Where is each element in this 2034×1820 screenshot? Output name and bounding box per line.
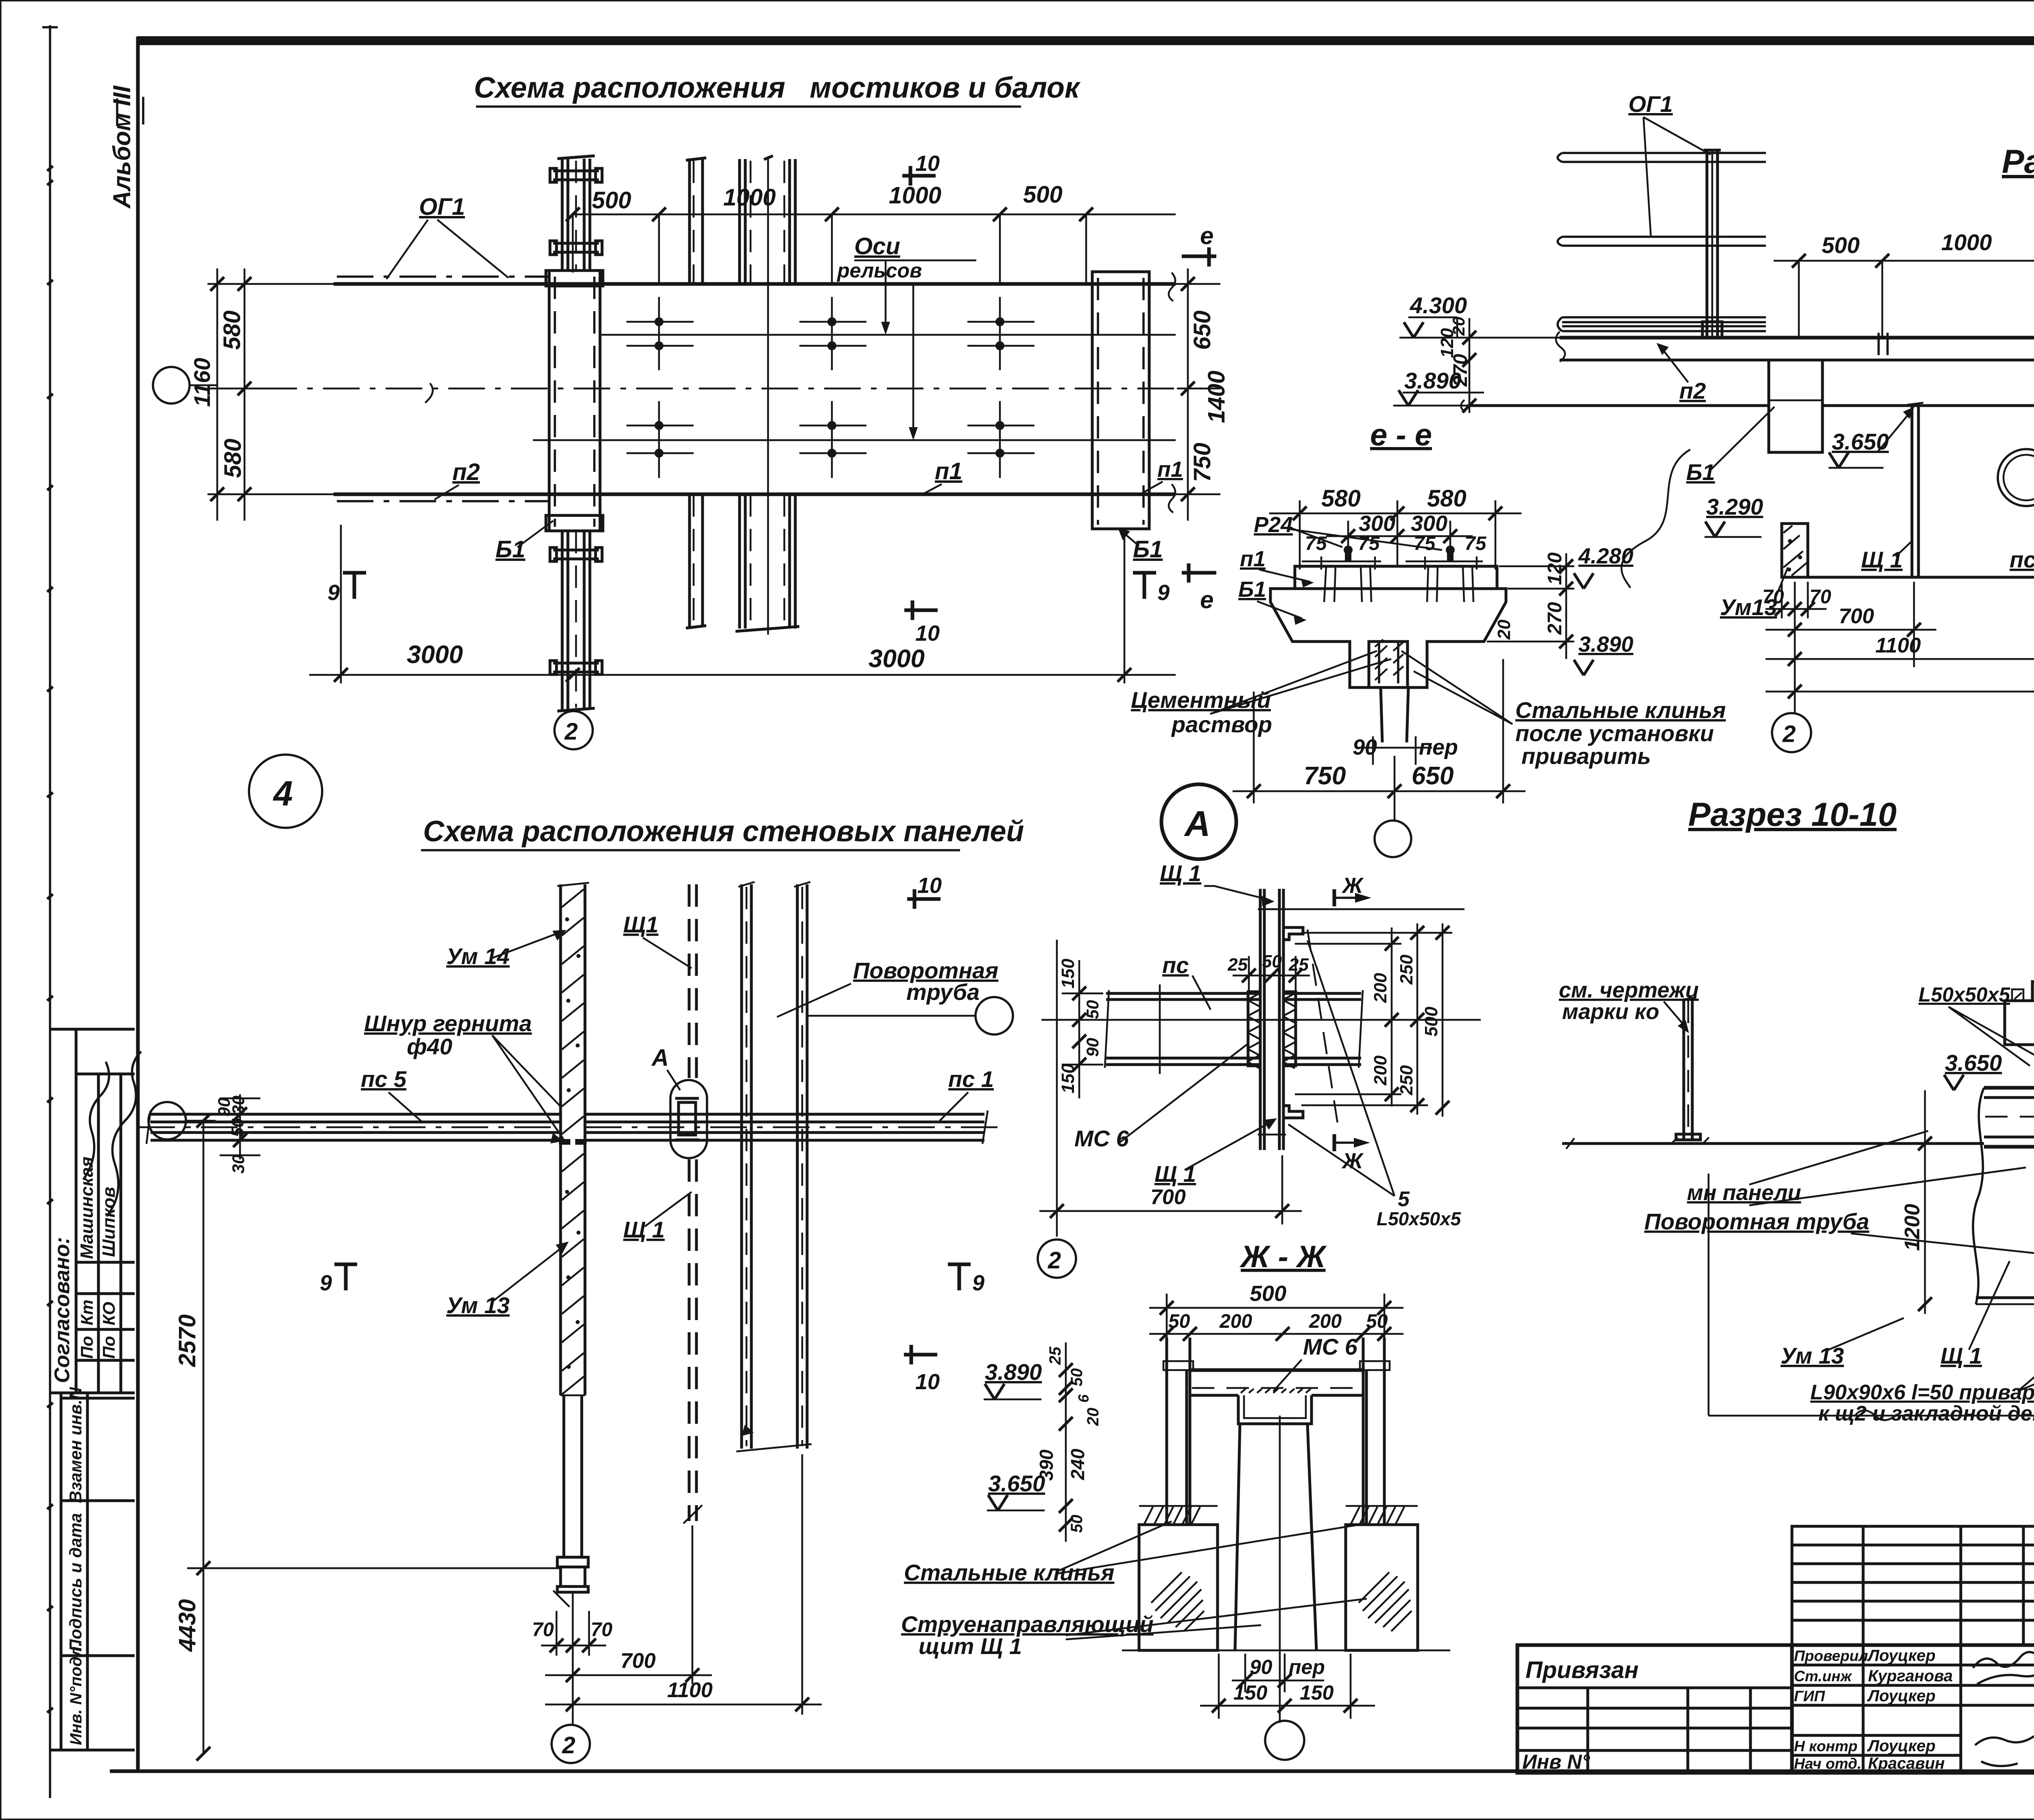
svg-text:6: 6: [1075, 1394, 1092, 1403]
dim 750/650: [1253, 692, 1255, 803]
svg-text:Взамен инв.N: Взамен инв.N: [66, 1386, 85, 1503]
svg-text:500: 500: [1250, 1281, 1286, 1306]
svg-text:70: 70: [1762, 586, 1784, 608]
wall panel Sch1: [1911, 407, 1914, 577]
svg-text:150: 150: [1058, 1063, 1078, 1093]
horizontal beam пс: [1106, 992, 1260, 995]
svg-text:1400: 1400: [1203, 371, 1230, 423]
svg-text:МС 6: МС 6: [1303, 1334, 1358, 1360]
svg-text:30: 30: [229, 1154, 248, 1174]
svg-text:2570: 2570: [174, 1314, 201, 1367]
svg-text:650: 650: [1412, 762, 1453, 790]
svg-text:50: 50: [1068, 1368, 1086, 1387]
deck beam п2: [1560, 336, 2034, 340]
svg-text:75: 75: [1414, 533, 1436, 554]
left dims 150/50/90/150: [1078, 960, 1080, 1098]
top beam: [1190, 1368, 1363, 1372]
svg-text:Разрез 10-10: Разрез 10-10: [1688, 796, 1897, 833]
svg-text:390: 390: [1036, 1449, 1057, 1481]
svg-text:10: 10: [917, 873, 942, 898]
svg-text:1160: 1160: [189, 358, 215, 407]
horizontal panel пс1 (right): [585, 1113, 984, 1116]
top dimension row: [1774, 260, 2034, 262]
svg-text:1000: 1000: [723, 184, 776, 211]
svg-text:Стальные клинья: Стальные клинья: [1515, 697, 1726, 723]
pipe wide (plan): [738, 159, 741, 284]
pipe pass-through dashes: [1877, 333, 1880, 365]
Ж section marks: [1333, 889, 1336, 906]
svg-text:Лоуцкер: Лоуцкер: [1867, 1737, 1936, 1755]
bridge deck strip bottom edge: [334, 493, 1176, 496]
svg-text:Ум 14: Ум 14: [446, 943, 510, 969]
svg-text:580: 580: [1321, 485, 1361, 512]
support B1 right: [1092, 272, 1149, 529]
guard rail OG1 bars: [1558, 153, 1766, 162]
svg-text:700: 700: [1150, 1185, 1186, 1209]
svg-text:150: 150: [1233, 1681, 1268, 1704]
svg-text:пс 5: пс 5: [361, 1066, 407, 1092]
mast above left support: [561, 159, 564, 271]
middle columns: [1790, 1645, 1794, 1773]
svg-text:1200: 1200: [1901, 1204, 1924, 1251]
svg-text:120: 120: [1544, 552, 1566, 585]
svg-text:Привязан: Привязан: [1525, 1657, 1639, 1683]
svg-text:после установки: после установки: [1515, 720, 1714, 746]
floor line: [1122, 1650, 1450, 1652]
joint detail oval A: [670, 1080, 707, 1158]
svg-text:9: 9: [327, 580, 340, 605]
svg-text:1100: 1100: [667, 1678, 713, 1702]
svg-text:4.300: 4.300: [1410, 292, 1467, 318]
svg-text:раствор: раствор: [1171, 711, 1272, 737]
svg-text:Лоуцкер: Лоуцкер: [1867, 1687, 1936, 1705]
long extension line bottom: [1708, 1174, 1710, 1416]
svg-text:ОГ1: ОГ1: [419, 194, 465, 220]
svg-text:3.290: 3.290: [1706, 494, 1763, 519]
left rotated dims: [1065, 1342, 1067, 1542]
svg-text:3.890: 3.890: [985, 1359, 1042, 1385]
section 3: [61, 1654, 135, 1657]
section trace dashed: [1307, 930, 1338, 1128]
svg-text:пс 1: пс 1: [948, 1066, 994, 1092]
700 bottom dim: [1056, 940, 1058, 1237]
beam B1 trapezoid body: [1270, 589, 1506, 687]
svg-text:500: 500: [1822, 232, 1859, 258]
svg-text:200: 200: [1371, 973, 1390, 1003]
axis circle 2: [1794, 700, 1796, 713]
album mark: [108, 85, 143, 209]
circle 2: [1038, 1240, 1076, 1278]
svg-text:ф40: ф40: [407, 1034, 452, 1059]
svg-text:Красавин: Красавин: [1868, 1755, 1945, 1772]
bottom dimension 3000/3000: [340, 525, 342, 683]
svg-text:500: 500: [1421, 1006, 1441, 1037]
support B1 left: [549, 271, 600, 531]
10 flag top: [907, 897, 941, 901]
svg-text:70: 70: [591, 1619, 613, 1641]
svg-text:75: 75: [1464, 533, 1487, 554]
svg-text:пер: пер: [1289, 1656, 1325, 1678]
svg-text:75: 75: [1305, 533, 1327, 554]
svg-text:п1: п1: [1157, 457, 1183, 482]
rail post: [1706, 150, 1709, 338]
svg-text:3.650: 3.650: [1945, 1050, 2002, 1076]
svg-text:750: 750: [1304, 762, 1346, 790]
svg-text:п2: п2: [452, 459, 480, 485]
70/70 dim: [1781, 582, 1783, 618]
bottom dims: [556, 1611, 558, 1656]
axis circle right top: [976, 997, 1013, 1034]
svg-text:90: 90: [1083, 1038, 1102, 1057]
svg-text:см. чертежи: см. чертежи: [1559, 978, 1699, 1002]
hatch strips at tops: [1144, 1507, 1200, 1525]
svg-text:25: 25: [1046, 1346, 1064, 1365]
svg-text:250: 250: [1397, 954, 1416, 985]
vertical dim 2570/4430: [203, 1121, 205, 1754]
svg-text:КО: КО: [99, 1302, 118, 1325]
svg-text:50: 50: [228, 1118, 247, 1137]
section 2: взамен инв: [60, 1393, 63, 1750]
svg-text:270: 270: [1544, 602, 1566, 635]
svg-text:Схема расположения стеновых па: Схема расположения стеновых панелей: [423, 815, 1024, 848]
svg-text:270: 270: [1450, 354, 1471, 387]
svg-text:700: 700: [620, 1649, 656, 1673]
svg-text:Курганова: Курганова: [1868, 1667, 1953, 1685]
пс mid tick line: [1159, 984, 1161, 1074]
svg-text:9: 9: [1157, 580, 1170, 605]
svg-text:По: По: [77, 1336, 96, 1359]
wall bottom end detail: [557, 1557, 588, 1567]
svg-text:Щ 1: Щ 1: [1940, 1343, 1982, 1368]
rail axis bottom: [533, 439, 1176, 441]
svg-text:90: 90: [214, 1098, 234, 1117]
svg-text:3000: 3000: [869, 645, 925, 673]
axis circle 4 big: [249, 755, 322, 828]
svg-text:Согласовано:: Согласовано:: [50, 1237, 74, 1383]
svg-text:Р24: Р24: [1254, 513, 1293, 537]
svg-text:3000: 3000: [407, 641, 463, 669]
svg-text:3.890: 3.890: [1578, 632, 1633, 657]
svg-text:труба: труба: [906, 979, 980, 1005]
mast below left support: [561, 531, 564, 710]
left trim line: [49, 25, 51, 1798]
right angle column: [1362, 1338, 1365, 1525]
bolt group crosses: [626, 297, 694, 478]
hatched pier Um13: [1782, 524, 1808, 577]
bridge deck strip top edge: [334, 282, 1176, 286]
svg-text:580: 580: [220, 439, 246, 478]
svg-text:75: 75: [1358, 533, 1380, 554]
ground level line 3.290: [1808, 576, 2034, 579]
lower column: [1381, 687, 1408, 742]
svg-text:9: 9: [320, 1271, 332, 1295]
svg-text:10: 10: [915, 151, 940, 176]
svg-text:50: 50: [1168, 1311, 1190, 1332]
svg-text:Щ 1: Щ 1: [1160, 860, 1201, 886]
svg-text:300: 300: [1411, 511, 1447, 536]
svg-text:Поворотная труба: Поворотная труба: [1644, 1209, 1869, 1234]
section flag e right bottom: [1182, 571, 1216, 575]
svg-text:Инв. N°подл.: Инв. N°подл.: [67, 1642, 85, 1745]
section 4: [50, 1749, 135, 1752]
wall lower plain part: [563, 1395, 565, 1557]
svg-text:Ж - Ж: Ж - Ж: [1239, 1240, 1327, 1274]
small circle below: [1375, 821, 1411, 857]
frame bottom border: [110, 1770, 2034, 1773]
dim 300/300: [1347, 521, 1349, 553]
svg-text:L50х50х5: L50х50х5: [1918, 983, 2010, 1006]
svg-text:50: 50: [1068, 1515, 1086, 1533]
bottom circle: [1265, 1721, 1304, 1760]
svg-text:1100: 1100: [1875, 634, 1921, 657]
svg-text:п1: п1: [935, 458, 962, 484]
svg-text:п2: п2: [1679, 378, 1706, 404]
top dimension row: [572, 214, 574, 273]
svg-text:5: 5: [1398, 1187, 1410, 1211]
svg-text:2: 2: [564, 718, 578, 745]
svg-text:90: 90: [1250, 1656, 1272, 1678]
svg-text:580: 580: [219, 310, 245, 350]
svg-text:200: 200: [1371, 1055, 1390, 1086]
svg-text:Разрез 9-9: Разрез 9-9: [2002, 143, 2034, 180]
axis circle 2: [572, 710, 574, 711]
left dimension lines: [216, 268, 218, 521]
center axis line: [1279, 1416, 1281, 1723]
svg-text:Б1: Б1: [1238, 577, 1266, 602]
axis circle left: [148, 1102, 186, 1139]
svg-text:1000: 1000: [889, 182, 941, 209]
svg-text:марки ко: марки ко: [1562, 999, 1659, 1024]
svg-text:Альбом III: Альбом III: [108, 85, 135, 209]
svg-text:е: е: [1200, 586, 1213, 613]
svg-text:250: 250: [1397, 1065, 1416, 1095]
bottom dims: [1794, 643, 1796, 700]
right end break marks: [1169, 273, 1175, 301]
svg-text:Б1: Б1: [1133, 536, 1163, 563]
tick marks along left trim line: [47, 166, 53, 1713]
dim 580/580: [1299, 500, 1301, 570]
axis circle 2 bottom: [552, 1725, 590, 1763]
pivot pipe vertical (plan): [740, 884, 743, 1449]
svg-text:L90х90х6 l=50 приварить: L90х90х6 l=50 приварить: [1810, 1381, 2034, 1404]
svg-text:700: 700: [1839, 604, 1874, 628]
guard rail OG1 top left dash-dot: [337, 275, 550, 278]
svg-text:70: 70: [532, 1619, 554, 1641]
svg-text:1000: 1000: [1941, 229, 1992, 255]
svg-text:Проверил: Проверил: [1794, 1648, 1868, 1664]
svg-text:МС 6: МС 6: [1074, 1126, 1129, 1151]
svg-text:А: А: [651, 1045, 669, 1071]
svg-text:Щ1: Щ1: [623, 912, 659, 937]
svg-text:Ж: Ж: [1341, 873, 1364, 898]
svg-text:пс: пс: [1162, 952, 1189, 978]
svg-text:2: 2: [562, 1732, 575, 1759]
vertical panel Щ1: [1259, 889, 1262, 1150]
frame left border: [136, 37, 140, 1771]
support B1 left below deck: [1769, 360, 1822, 452]
bottom dims 90/пер and 150/150: [1244, 1654, 1246, 1692]
МС6 channel: [1238, 1395, 1312, 1424]
ground line 3.290: [1562, 1142, 1984, 1145]
joint blocks hatched: [1248, 992, 1260, 1066]
axis circle left: [153, 367, 190, 404]
svg-text:50: 50: [1083, 1000, 1102, 1019]
panel blocks with wavy edges: [1973, 1088, 1984, 1304]
svg-text:пс5: пс5: [2010, 547, 2034, 572]
right dimension lines: [1151, 283, 1220, 285]
svg-text:2: 2: [1048, 1247, 1061, 1274]
top angle bracket: [1283, 927, 1303, 940]
svg-text:щит Щ 1: щит Щ 1: [919, 1633, 1022, 1659]
svg-text:Щ 1: Щ 1: [1154, 1161, 1196, 1187]
right dims 200/250 x2 + 500: [1391, 927, 1393, 1106]
svg-text:Б1: Б1: [495, 536, 525, 563]
svg-text:25: 25: [1288, 955, 1309, 975]
section flags 9: [334, 1263, 357, 1266]
svg-text:650: 650: [1189, 310, 1216, 350]
svg-text:к щ2 и закладной детали панел: к щ2 и закладной детали панели: [1818, 1402, 2034, 1425]
small corner angles on beam: [2012, 989, 2023, 1001]
upper small grid: [1792, 1526, 2034, 1645]
10 flag bottom: [904, 1353, 937, 1357]
svg-text:приварить: приварить: [1521, 743, 1651, 769]
svg-text:50: 50: [1262, 951, 1282, 971]
svg-text:Б1: Б1: [1686, 459, 1715, 485]
pivot pipe circle: [1998, 449, 2034, 506]
horizontal pipe band: [1984, 1086, 2034, 1090]
svg-text:120: 120: [1437, 328, 1457, 358]
svg-text:Нач отд.: Нач отд.: [1794, 1755, 1862, 1772]
center trapezoid column: [1235, 1424, 1240, 1650]
diagonal hatch patches: [1151, 1572, 1204, 1631]
dim 50/200/200/50: [1149, 1333, 1403, 1335]
svg-text:4: 4: [273, 774, 293, 813]
svg-text:240: 240: [1067, 1449, 1088, 1480]
svg-text:Инв N°: Инв N°: [1522, 1750, 1590, 1773]
svg-text:500: 500: [1023, 181, 1063, 208]
guard rail OG1 bottom left dash-dot: [337, 500, 550, 502]
lower main block: [1517, 1645, 2034, 1773]
svg-text:150: 150: [1300, 1681, 1334, 1704]
dim 1200: [1924, 1090, 1926, 1314]
wall panel Um13 lower (hatched): [559, 1144, 562, 1395]
svg-text:500: 500: [592, 187, 631, 214]
svg-text:Лоуцкер: Лоуцкер: [1867, 1647, 1936, 1665]
top dims 25/50/25: [1248, 956, 1250, 992]
joint gasket marks: [559, 1139, 570, 1145]
deck center axis: [260, 388, 1202, 390]
rails P24 on slab: [1341, 546, 1355, 566]
wall panel Um14 upper (hatched): [559, 884, 562, 1139]
svg-text:Щ 1: Щ 1: [623, 1217, 665, 1242]
svg-text:Ст.инж: Ст.инж: [1794, 1668, 1852, 1685]
svg-text:L50х50х5: L50х50х5: [1377, 1208, 1462, 1229]
top dim 500: [1166, 1294, 1168, 1355]
horizontal panel пс5 (left): [151, 1113, 561, 1116]
svg-text:Ж: Ж: [1341, 1149, 1364, 1173]
svg-text:50: 50: [1366, 1311, 1388, 1332]
foundation blocks: [1139, 1525, 1218, 1650]
svg-text:Кт: Кт: [77, 1300, 96, 1325]
rail fastening verticals: [1324, 566, 1326, 602]
cement joint shape under beam: [1379, 642, 1398, 683]
floor line: [1467, 404, 1769, 407]
S break curve left: [1622, 450, 1690, 588]
svg-text:Щ 1: Щ 1: [1861, 547, 1903, 572]
svg-text:Схема расположения мостиков: Схема расположения мостиков и балок: [474, 72, 1081, 104]
rail axis top: [601, 334, 1176, 336]
svg-text:е: е: [1200, 222, 1213, 249]
svg-text:е - е: е - е: [1370, 418, 1432, 452]
svg-text:п1: п1: [1240, 547, 1266, 571]
svg-text:580: 580: [1427, 485, 1467, 512]
svg-text:ОГ1: ОГ1: [1628, 91, 1673, 117]
svg-text:200: 200: [1309, 1311, 1342, 1332]
svg-text:20: 20: [1084, 1408, 1102, 1427]
svg-text:Оси: Оси: [854, 233, 900, 260]
frame top heavy border: [137, 36, 2034, 45]
svg-text:9: 9: [972, 1271, 984, 1295]
top beam cross-section: [2032, 982, 2034, 1001]
svg-text:По: По: [99, 1336, 118, 1359]
svg-text:3.650: 3.650: [1832, 429, 1889, 454]
circle A: [1161, 784, 1236, 859]
svg-text:А: А: [1184, 803, 1211, 844]
svg-text:рельсов: рельсов: [836, 259, 922, 282]
svg-text:750: 750: [1189, 443, 1216, 482]
svg-text:25: 25: [1227, 955, 1248, 975]
svg-text:20: 20: [1494, 620, 1514, 640]
signature squiggles: [83, 1062, 109, 1180]
svg-text:10: 10: [915, 621, 940, 646]
svg-text:2: 2: [1782, 721, 1796, 747]
top slab п1: [1295, 566, 1497, 589]
beam axis line: [1041, 1019, 1481, 1021]
svg-text:10: 10: [915, 1370, 940, 1394]
right side dims of e-e: [1499, 565, 1574, 567]
svg-text:200: 200: [1219, 1311, 1252, 1332]
column KO: [1683, 999, 1685, 1139]
left angle column: [1165, 1338, 1168, 1525]
svg-text:300: 300: [1359, 511, 1395, 536]
svg-text:Н контр: Н контр: [1794, 1738, 1857, 1755]
pipe narrow (plan): [688, 159, 691, 284]
svg-text:Стальные клинья: Стальные клинья: [904, 1560, 1114, 1585]
signatures: [1973, 1652, 2034, 1684]
section flag 10 top: [902, 174, 936, 178]
svg-text:Подпись и дата: Подпись и дата: [66, 1513, 85, 1652]
svg-text:4430: 4430: [174, 1599, 201, 1652]
svg-text:Шнур гернита: Шнур гернита: [364, 1010, 532, 1036]
svg-text:150: 150: [1058, 958, 1078, 989]
section flags 9: [343, 571, 366, 575]
small hatch under beam center: [1375, 639, 1403, 680]
thin panel Sch1 vertical: [688, 884, 691, 1078]
svg-text:70: 70: [1809, 586, 1831, 608]
svg-text:ГИП: ГИП: [1794, 1688, 1825, 1704]
section flag 10 bottom: [904, 609, 938, 612]
